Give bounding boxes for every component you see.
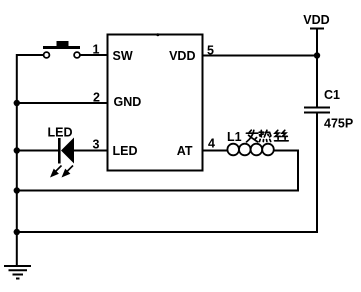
svg-text:LED: LED [48, 126, 73, 140]
svg-text:4: 4 [208, 137, 215, 151]
svg-text:C1: C1 [324, 88, 340, 102]
svg-text:3: 3 [93, 137, 100, 151]
svg-text:5: 5 [207, 44, 214, 58]
svg-text:L1: L1 [227, 130, 242, 144]
svg-text:2: 2 [93, 91, 100, 105]
svg-text:AT: AT [177, 144, 193, 158]
svg-text:LED: LED [113, 144, 138, 158]
svg-text:SW: SW [113, 49, 133, 63]
svg-text:GND: GND [114, 95, 142, 109]
svg-text:VDD: VDD [303, 13, 329, 27]
svg-text:1: 1 [93, 43, 100, 57]
svg-text:VDD: VDD [169, 49, 195, 63]
svg-text:475P: 475P [324, 117, 353, 131]
